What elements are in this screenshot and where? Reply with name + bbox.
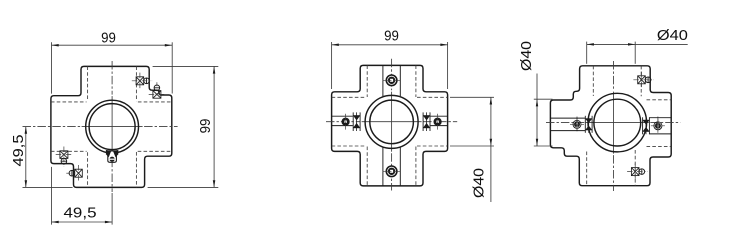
svg-text:49,5: 49,5 [64, 205, 97, 222]
svg-text:49,5: 49,5 [10, 135, 27, 167]
svg-text:99: 99 [101, 29, 116, 46]
svg-text:99: 99 [384, 28, 399, 45]
svg-text:99: 99 [197, 119, 214, 134]
svg-text:Ø40: Ø40 [471, 168, 488, 198]
svg-text:Ø40: Ø40 [518, 41, 535, 71]
svg-text:Ø40: Ø40 [657, 27, 688, 44]
